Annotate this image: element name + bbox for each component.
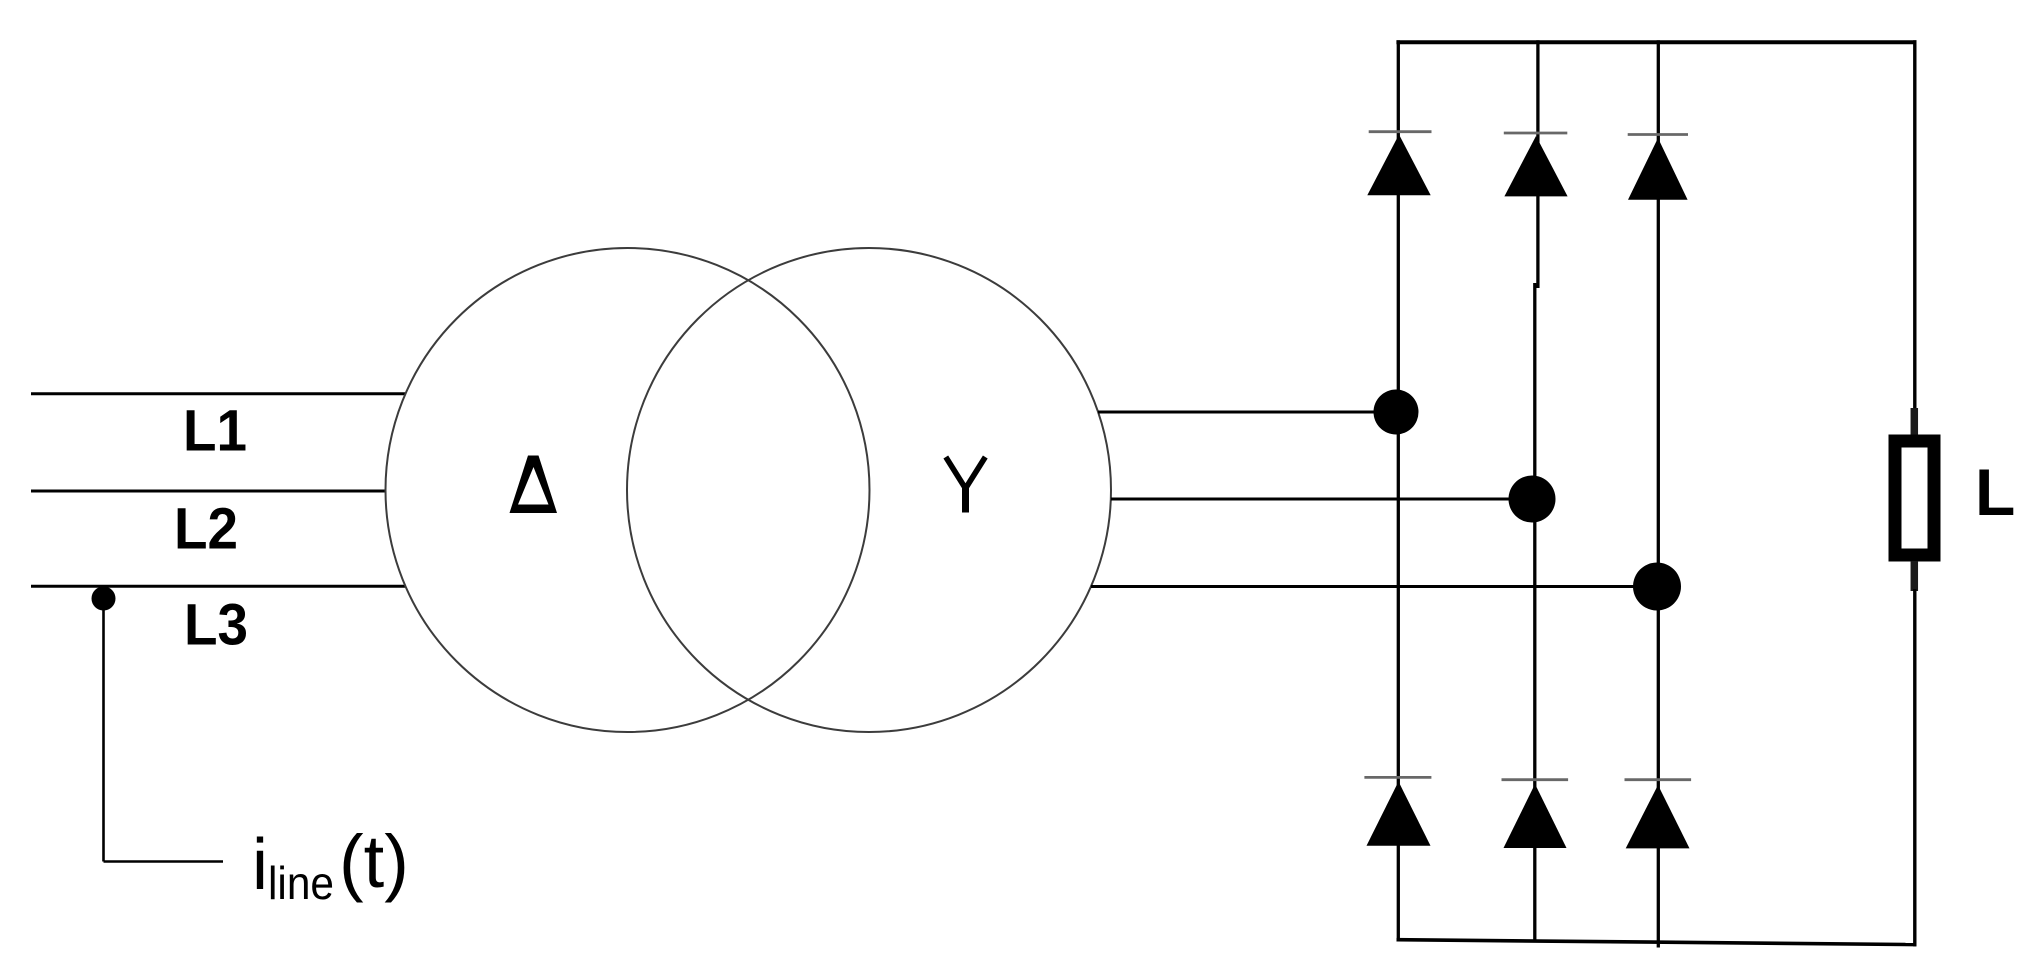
wire load top stub: [1911, 408, 1919, 435]
wire current-probe horizontal: [104, 860, 224, 863]
wire L2 phase input: [31, 490, 386, 493]
svg-text:L: L: [1975, 455, 2015, 529]
diode D2 cathode bar: [1504, 132, 1568, 135]
node A junction: [1374, 390, 1419, 435]
wire secondary phase a: [1098, 411, 1398, 414]
wire right edge lower segment: [1913, 589, 1916, 946]
wire leg3 lower segment: [1657, 847, 1660, 948]
wire leg2 upper segment: [1536, 40, 1539, 146]
wire L3 phase input: [31, 585, 406, 588]
diode D3 cathode bar: [1628, 133, 1688, 136]
svg-text:iline(t): iline(t): [252, 820, 409, 909]
diode D6: [1626, 785, 1690, 848]
wire leg2 lower segment: [1533, 847, 1536, 942]
svg-text:L2: L2: [174, 497, 238, 562]
diode D3: [1628, 138, 1688, 200]
node C junction: [1633, 563, 1681, 611]
diode D5: [1504, 784, 1567, 848]
wire L1 phase input: [31, 392, 405, 395]
diode D1 cathode bar: [1369, 130, 1432, 133]
wire leg2 segment below jog: [1533, 283, 1536, 794]
wire leg3 middle segment: [1657, 199, 1660, 795]
diode D2: [1504, 136, 1567, 196]
node L3 current tap junction: [92, 587, 116, 611]
label Y: [946, 457, 986, 513]
wire secondary phase c: [1091, 585, 1658, 588]
wire leg2 segment above jog: [1536, 196, 1539, 288]
label delta: [510, 456, 558, 514]
wire leg1 upper segment: [1397, 40, 1400, 145]
diode D1: [1367, 135, 1430, 196]
diode D4: [1367, 782, 1431, 846]
wire secondary phase b: [1111, 498, 1535, 501]
wire current-probe vertical: [102, 599, 105, 862]
wire right edge upper segment: [1913, 40, 1916, 410]
diode D4 cathode bar: [1364, 776, 1431, 779]
transformer primary circle U1 delta winding: [386, 248, 870, 732]
svg-text:L1: L1: [183, 399, 247, 464]
wire leg1 middle segment: [1397, 195, 1400, 792]
wire top DC rail: [1396, 40, 1916, 44]
wire load bottom stub: [1911, 561, 1919, 591]
diode D6 cathode bar: [1625, 778, 1692, 781]
inductor load L body: [1895, 441, 1934, 555]
wire bottom DC rail: [1397, 940, 1917, 945]
wire leg3 upper segment: [1657, 40, 1660, 148]
svg-text:L3: L3: [184, 593, 248, 658]
diode D5 cathode bar: [1502, 778, 1569, 781]
transformer secondary circle U1 wye winding: [627, 248, 1111, 732]
wire leg2 jog: [1535, 285, 1538, 288]
node B junction: [1509, 476, 1556, 523]
wire leg1 lower segment: [1397, 845, 1400, 941]
